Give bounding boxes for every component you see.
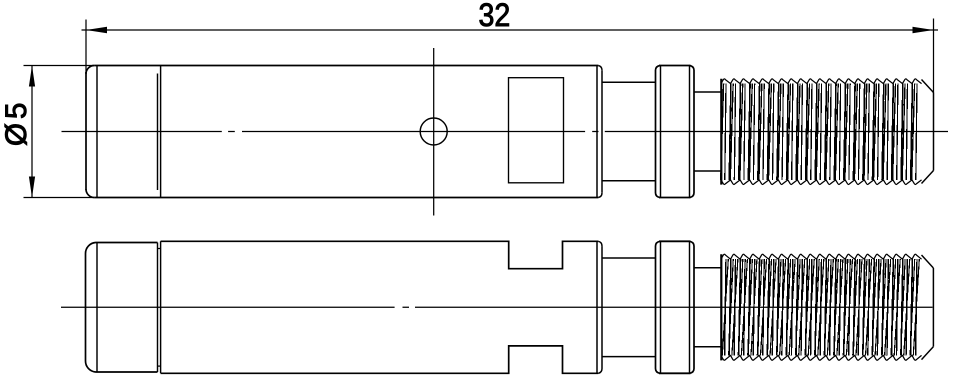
body end edge circle line bbox=[596, 66, 598, 198]
thread helix lines set 3 (top view) bbox=[725, 84, 917, 180]
dim line tick right bbox=[934, 29, 939, 31]
flange left fillet silhouette bbox=[660, 66, 662, 198]
neck2 top edge (bottom view) bbox=[694, 267, 721, 269]
joint groove bottom tick bbox=[158, 365, 161, 367]
head chamfer silhouette line bbox=[96, 66, 98, 198]
extension line D5 top bbox=[24, 65, 95, 67]
neck1 top edge (bottom view) bbox=[602, 257, 656, 259]
body end edge circle line (bottom view) bbox=[596, 241, 598, 373]
body end bottom corner arc (bottom view) bbox=[598, 369, 602, 374]
flange bottom edge (top view) bbox=[659, 197, 691, 199]
dimension 32 left arrowhead bbox=[86, 27, 107, 33]
body end bottom corner arc bbox=[598, 193, 602, 198]
cross hole circle bbox=[420, 118, 447, 145]
body end top corner arc bbox=[598, 66, 602, 71]
horizontal centerline (bottom view) bbox=[61, 306, 933, 308]
shaft bottom edge with notch (bottom view) bbox=[161, 346, 599, 373]
neck1 bottom edge (top view) bbox=[602, 180, 656, 182]
extension line left (x=86) bbox=[85, 20, 87, 73]
joint groove top tick bbox=[158, 248, 161, 250]
head/shaft joint line 2 (bottom view) bbox=[160, 241, 162, 373]
body top edge (top view) bbox=[94, 65, 598, 67]
thread crest profile bottom (top view) bbox=[721, 180, 922, 185]
neck1 top edge (top view) bbox=[602, 81, 656, 83]
svg-text:32: 32 bbox=[479, 0, 511, 33]
flange bottom edge (bottom view) bbox=[659, 372, 691, 374]
thread end chamfer top (top view) bbox=[922, 80, 934, 93]
window slot rectangle bbox=[509, 78, 564, 183]
head/shaft joint line 2 bbox=[160, 66, 162, 198]
head bottom edge (bottom view) bbox=[96, 371, 158, 373]
neck2 top edge (top view) bbox=[694, 91, 721, 93]
head/shaft joint line 1 (bottom view) bbox=[157, 243, 159, 373]
vertical centerline through hole bbox=[433, 48, 435, 216]
thread left edge (top view) bbox=[720, 79, 722, 185]
body bottom edge (top view) bbox=[94, 197, 598, 199]
thread end face (bottom view) bbox=[932, 268, 934, 347]
extension line right (x=933.5) bbox=[933, 19, 935, 93]
dimension 32 line bbox=[86, 29, 934, 31]
body end face (bottom view) bbox=[601, 246, 603, 368]
thread end chamfer bottom (bottom view) bbox=[922, 347, 934, 360]
thread end face (top view) bbox=[933, 93, 935, 171]
head left face (bottom view) bbox=[85, 254, 87, 362]
body end top corner arc (bottom view) bbox=[598, 241, 602, 246]
dimension D5 line bbox=[31, 66, 33, 198]
head/shaft joint line 1 bbox=[157, 74, 159, 191]
thread helix lines set 3 (bottom view) bbox=[725, 259, 917, 355]
extension line D5 bottom bbox=[24, 197, 95, 199]
flange right fillet silhouette bbox=[689, 66, 691, 198]
head top-left fillet (bottom view) bbox=[85, 243, 95, 254]
neck1 bottom edge (bottom view) bbox=[602, 356, 656, 358]
neck2 bottom edge (top view) bbox=[694, 170, 721, 172]
flange top edge (top view) bbox=[659, 65, 691, 67]
head bottom-left fillet bbox=[86, 189, 94, 197]
flange left fillet silhouette (bottom view) bbox=[660, 241, 662, 373]
shaft top edge with notch (bottom view) bbox=[161, 241, 599, 268]
thread crest profile top (top view) bbox=[721, 79, 922, 84]
head left face (top view) bbox=[85, 72, 87, 190]
thread helix lines set 2 (bottom view) bbox=[729, 259, 915, 355]
svg-text:Ø5: Ø5 bbox=[0, 99, 33, 146]
thread crest profile top (bottom view) bbox=[721, 254, 922, 259]
thread helix lines set 2 (top view) bbox=[721, 84, 915, 180]
thread helix lines set 1 (top view) bbox=[729, 84, 912, 180]
head top-left fillet bbox=[86, 66, 94, 74]
dim line tick left bbox=[82, 29, 87, 31]
flange left face (bottom view) bbox=[656, 241, 661, 373]
flange left face (top view) bbox=[656, 66, 661, 198]
head top edge (bottom view) bbox=[96, 242, 158, 244]
flange right face (top view) bbox=[690, 66, 695, 198]
thread end chamfer top (bottom view) bbox=[922, 255, 934, 268]
dimension D5 top arrowhead bbox=[29, 66, 35, 87]
dimension D5 bottom arrowhead bbox=[29, 177, 35, 198]
thread left edge (bottom view) bbox=[720, 254, 722, 360]
head chamfer silhouette (bottom view) bbox=[96, 243, 98, 373]
neck2 bottom edge (bottom view) bbox=[694, 346, 721, 348]
dimension 32 right arrowhead bbox=[913, 27, 934, 33]
thread crest profile bottom (bottom view) bbox=[721, 355, 922, 360]
thread helix lines set 1 (bottom view) bbox=[729, 259, 912, 355]
head bottom-left fillet (bottom view) bbox=[85, 361, 95, 372]
thread helix lines set 4 (bottom view) bbox=[722, 259, 919, 355]
flange right face (bottom view) bbox=[690, 241, 695, 373]
flange top edge (bottom view) bbox=[659, 240, 691, 242]
body end face bbox=[601, 70, 603, 192]
flange right fillet silhouette (bottom view) bbox=[689, 241, 691, 373]
horizontal centerline (top view) bbox=[62, 131, 949, 133]
thread end chamfer bottom (top view) bbox=[922, 171, 934, 184]
